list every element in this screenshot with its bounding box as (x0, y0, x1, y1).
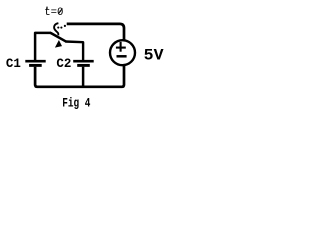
wire: C2 bottom vertical (82, 67, 85, 88)
switch open-position dotted arc (57, 25, 66, 29)
capacitor C1 plates (25, 61, 45, 65)
svg-text:5V: 5V (144, 46, 164, 64)
svg-text:Fig 4: Fig 4 (62, 96, 90, 111)
wire: C1 top vertical + top-left horizontal to switch pivot (35, 33, 51, 60)
wire: top rail from switch to source (67, 24, 124, 41)
plus sign (116, 42, 126, 52)
switch blade (closed to C2 side) (51, 33, 66, 41)
wire: C2 top vertical + horizontal to switch blade end (65, 42, 83, 61)
svg-text:C2: C2 (56, 57, 71, 71)
capacitor C2 plates (73, 61, 94, 65)
switch motion arrowhead (55, 40, 62, 48)
wire: bottom loop (C1 bottom, bottom rail, right vertical up to source) (35, 66, 124, 87)
voltage source V1 circle (110, 40, 135, 65)
slash of zero in t=0 (59, 8, 63, 13)
svg-text:C1: C1 (6, 57, 21, 71)
t ascender tick (46, 7, 48, 10)
minus sign (117, 55, 127, 58)
switch motion arc (54, 23, 58, 35)
